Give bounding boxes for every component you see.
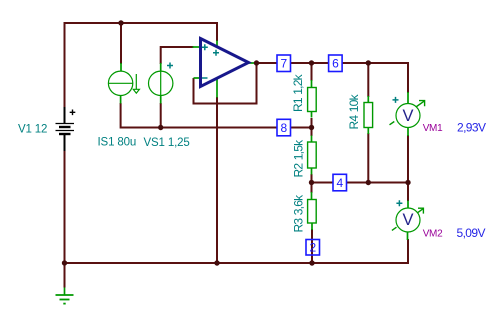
svg-text:8: 8	[281, 121, 288, 135]
svg-text:IS1 80u: IS1 80u	[98, 137, 137, 149]
svg-text:VM1: VM1	[423, 123, 443, 134]
svg-text:V: V	[402, 211, 413, 229]
svg-text:6: 6	[332, 57, 339, 71]
svg-text:5,09V: 5,09V	[457, 226, 486, 240]
svg-text:V1 12: V1 12	[18, 123, 47, 135]
svg-text:R2 1,5k: R2 1,5k	[292, 139, 306, 178]
svg-text:VM2: VM2	[423, 228, 443, 239]
svg-text:2: 2	[310, 241, 317, 255]
svg-text:R3 3,6k: R3 3,6k	[292, 194, 306, 233]
svg-text:R4 10k: R4 10k	[347, 93, 361, 129]
svg-text:VS1 1,25: VS1 1,25	[144, 137, 190, 149]
svg-text:2,93V: 2,93V	[457, 121, 486, 135]
svg-text:7: 7	[281, 57, 288, 71]
svg-text:4: 4	[337, 176, 344, 190]
svg-text:R1 1,2k: R1 1,2k	[291, 73, 305, 112]
svg-text:V: V	[402, 107, 413, 125]
